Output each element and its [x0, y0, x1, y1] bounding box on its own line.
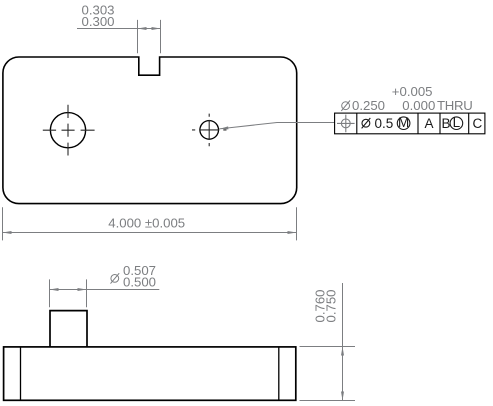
side view left tangent edge — [20, 347, 22, 400]
svg-text:0.250: 0.250 — [352, 98, 385, 113]
boss outline (side view) — [50, 311, 87, 347]
svg-text:L: L — [453, 115, 461, 130]
hole H1 center mark — [43, 105, 95, 156]
dimension 4.000 ±0.005 text — [108, 216, 185, 231]
svg-text:0.750: 0.750 — [323, 289, 338, 322]
svg-text:B: B — [441, 116, 450, 131]
dimension 0.760/0.750 dimension line and arrows — [341, 283, 344, 401]
svg-text:0.500: 0.500 — [123, 275, 156, 290]
hole H2 Ø0.250 — [200, 121, 219, 140]
svg-text:THRU: THRU — [437, 98, 472, 113]
callout text Ø0.250 +0.005/0.000 THRU — [341, 84, 472, 113]
side view outline — [4, 347, 296, 400]
feature control frame box — [335, 113, 485, 134]
leader from hole H2 to feature control frame — [219, 123, 334, 130]
svg-text:+0.005: +0.005 — [392, 84, 433, 99]
dimension Ø0.507/0.500 dimension line and arrows — [50, 288, 160, 291]
svg-text:0.5: 0.5 — [375, 116, 394, 131]
svg-text:0.300: 0.300 — [82, 14, 115, 29]
svg-text:M: M — [398, 115, 409, 130]
dimension 0.760/0.750 rotated text — [313, 289, 339, 322]
svg-text:4.000 ±0.005: 4.000 ±0.005 — [108, 216, 185, 231]
FCF tolerance Ø0.5 — [362, 116, 394, 131]
side view right tangent edge — [278, 347, 280, 400]
dimension 0.303/0.300 text — [82, 3, 115, 29]
dimension 0.303/0.300 dimension line and arrows — [77, 27, 161, 30]
position symbol — [337, 115, 355, 133]
svg-text:0.000: 0.000 — [402, 98, 435, 113]
svg-text:A: A — [424, 116, 433, 131]
dimension 4.000 ±0.005 dimension line and arrows — [3, 231, 297, 234]
modifier M circle (MMC) — [397, 115, 410, 130]
datum reference B — [441, 116, 450, 131]
svg-text:C: C — [473, 116, 483, 131]
dimension 0.760/0.750 extension lines — [300, 347, 356, 401]
dimension Ø0.507/0.500 text — [111, 263, 157, 289]
datum reference C — [473, 116, 483, 131]
datum reference A — [424, 116, 433, 131]
hole H1 Ø0.750 — [50, 113, 85, 148]
plate outline with notch (top view) — [3, 57, 297, 204]
dimension 0.303/0.300 extension lines — [138, 20, 161, 53]
hole H2 center mark — [192, 114, 227, 147]
modifier L circle (LMC) — [450, 115, 463, 130]
dimension Ø0.507/0.500 extension lines — [50, 279, 87, 307]
dimension 4.000 ±0.005 extension lines — [3, 207, 297, 240]
